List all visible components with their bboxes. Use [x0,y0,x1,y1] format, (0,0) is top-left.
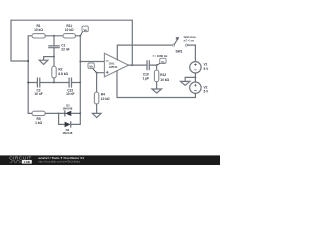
node C row right [79,82,81,84]
wire minus input row [80,61,104,63]
svg-text:Va: Va [83,28,87,32]
voltage source V1 [190,62,209,73]
node diode left junction [58,113,60,115]
svg-text:6.8 kΩ: 6.8 kΩ [58,72,68,76]
footer logo LAB box [22,160,32,164]
ground below R4 [92,113,101,117]
node R-R midpoint [53,35,55,37]
node C-C midpoint [53,82,55,84]
wire switch to V1 [188,45,196,62]
node ground tap junction [53,56,55,58]
wire diode branch left drop [59,113,65,124]
capacitor C22 [66,78,74,96]
svg-text:1N4148: 1N4148 [62,131,72,135]
node minus row junction [79,61,81,63]
svg-text:http://circuitlab.com/c/e43b2u: http://circuitlab.com/c/e43b2u8wfq [38,159,80,163]
resistor R4 [94,73,110,114]
wire top row left [28,35,32,37]
wire R5 row left [28,112,32,114]
capacitor C2 [34,78,42,96]
wire V+ supply rail [117,44,172,46]
svg-text:22 nF: 22 nF [61,47,69,51]
wire op-amp V- pin [116,71,118,98]
node plus row junction [96,72,98,74]
svg-text:LAB: LAB [24,160,30,164]
svg-text:10 nF: 10 nF [66,92,74,96]
node diode right junction [79,113,81,115]
wire C10 to Vo node [149,64,156,66]
svg-text:10 kΩ: 10 kΩ [160,78,169,82]
op-amp OA1 [104,53,128,77]
node Vb flag [88,63,97,73]
wire right column [79,36,81,114]
wire feedback column [131,20,133,65]
svg-text:10 nF: 10 nF [34,92,42,96]
svg-text:R4: R4 [101,92,105,96]
wire V2 to bottom rail [117,93,195,97]
node supply mid junction [195,77,197,79]
svg-text:Vb: Vb [89,65,93,69]
wire supply ground tap [185,76,195,78]
wire top row right [76,35,81,37]
svg-text:10 kΩ: 10 kΩ [65,28,74,32]
svg-text:SW1: SW1 [176,49,183,53]
svg-text:1N4148: 1N4148 [62,106,72,110]
svg-text:LM741: LM741 [109,65,118,69]
svg-text:at T = 1 ms: at T = 1 ms [184,39,195,43]
wire plus input row [97,72,105,74]
svg-text:10 kΩ: 10 kΩ [34,28,43,32]
wire V1 to V2 [194,73,196,82]
node Vo flag [157,58,166,65]
resistor R11 [63,24,76,38]
node C row left [27,82,29,84]
resistor R5 [32,111,45,125]
svg-text:R12: R12 [160,73,166,77]
wire C row segment 2 [40,82,54,84]
wire jog to twin-T input [11,60,28,62]
node Va flag [80,26,88,36]
wire op-amp V+ pin [116,45,118,60]
diode D1 [59,103,81,116]
node output junction [131,64,133,66]
svg-text:5 V: 5 V [204,67,210,71]
ground below R12 [152,89,162,93]
svg-text:Vo: Vo [161,60,165,64]
switch SW1 [172,37,187,53]
resistor R2 [52,57,69,83]
footer logo waveform [10,161,22,163]
svg-text:1 µF: 1 µF [143,76,149,80]
node top right junction [79,35,81,37]
ground supply mid [181,77,190,85]
node Vo junction [156,64,158,66]
wire between R1 and R11 [45,35,63,37]
wire output row [129,64,148,66]
diode D2 [62,122,80,135]
wire C1 bottom stub [53,48,55,57]
footer bar [0,155,220,165]
svg-text:10 kΩ: 10 kΩ [101,97,110,101]
svg-text:f = 1060 Hz: f = 1060 Hz [153,54,168,58]
wire R5 to diode pair [45,112,58,114]
svg-text:1 kΩ: 1 kΩ [35,121,42,125]
svg-text:5 V: 5 V [204,90,210,94]
wire C row segment 3 [54,82,69,84]
wire main left column [27,36,29,114]
voltage source V2 [190,82,209,94]
capacitor C1 [49,43,70,51]
node junction left column [27,60,29,62]
wire C row segment 4 [72,82,81,84]
wire C row segment 1 [28,82,37,84]
capacitor C10 [143,61,150,81]
ground near C1 [39,57,48,65]
wire diode branch right drop [79,113,81,124]
resistor R1 [32,24,45,38]
wire ground tap [44,56,54,58]
svg-text:Switch closes: Switch closes [184,35,197,39]
wire top feedback rail [11,19,132,21]
wire left column [10,20,12,61]
resistor R12 [154,65,169,89]
wire C1 stub top [53,36,55,46]
